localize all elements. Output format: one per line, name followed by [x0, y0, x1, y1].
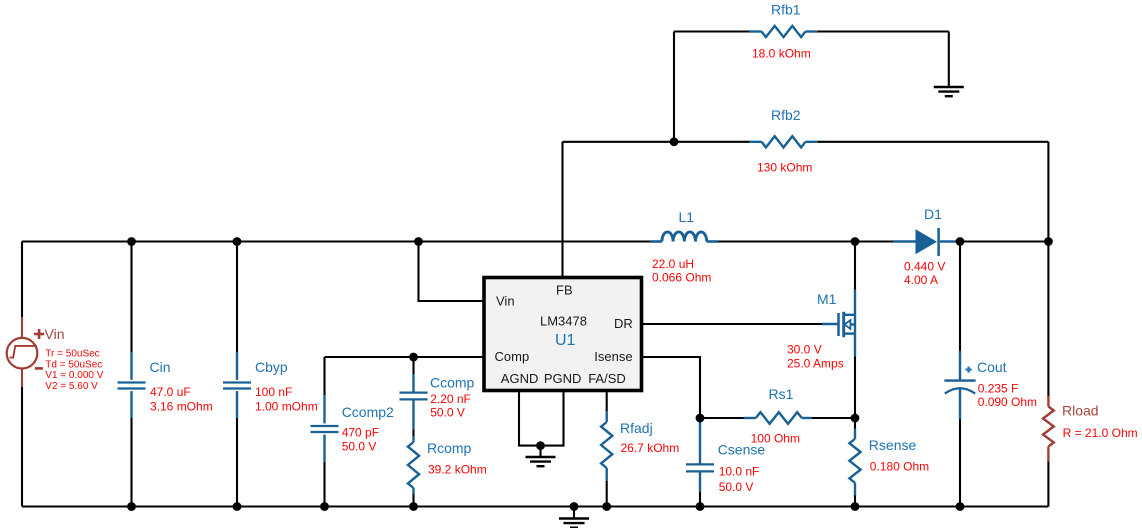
svg-text:39.2 kOhm: 39.2 kOhm	[428, 463, 487, 477]
svg-text:Rfadj: Rfadj	[620, 420, 653, 436]
svg-text:Rcomp: Rcomp	[427, 440, 472, 456]
svg-text:30.0 V: 30.0 V	[787, 343, 822, 357]
svg-text:FB: FB	[556, 283, 573, 298]
svg-text:Vin: Vin	[45, 326, 65, 342]
svg-text:10.0 nF: 10.0 nF	[719, 465, 760, 479]
svg-text:Rload: Rload	[1062, 403, 1099, 419]
svg-text:50.0 V: 50.0 V	[719, 480, 754, 494]
svg-text:R = 21.0 Ohm: R = 21.0 Ohm	[1063, 426, 1138, 440]
svg-text:4.00 A: 4.00 A	[904, 273, 938, 287]
svg-text:Td = 50uSec: Td = 50uSec	[45, 359, 102, 370]
svg-text:0.440 V: 0.440 V	[904, 260, 945, 274]
svg-text:FA/SD: FA/SD	[588, 371, 626, 386]
svg-text:PGND: PGND	[544, 371, 582, 386]
svg-text:Vin: Vin	[496, 294, 515, 309]
svg-text:25.0 Amps: 25.0 Amps	[787, 357, 844, 371]
svg-text:Rfb1: Rfb1	[771, 2, 801, 18]
svg-text:Cout: Cout	[977, 359, 1007, 375]
svg-text:U1: U1	[555, 332, 576, 349]
svg-text:Rfb2: Rfb2	[771, 107, 801, 123]
svg-text:3.16 mOhm: 3.16 mOhm	[150, 400, 213, 414]
svg-text:V2 = 5.60 V: V2 = 5.60 V	[45, 381, 98, 392]
svg-text:18.0 kOhm: 18.0 kOhm	[752, 47, 811, 61]
svg-text:0.066 Ohm: 0.066 Ohm	[652, 271, 711, 285]
svg-text:M1: M1	[817, 291, 837, 307]
svg-text:100 Ohm: 100 Ohm	[751, 432, 800, 446]
svg-text:L1: L1	[679, 209, 695, 225]
svg-text:Cin: Cin	[150, 359, 171, 375]
svg-text:Ccomp: Ccomp	[430, 375, 475, 391]
svg-text:47.0 uF: 47.0 uF	[150, 385, 191, 399]
svg-text:2.20 nF: 2.20 nF	[430, 392, 471, 406]
svg-text:Comp: Comp	[495, 349, 530, 364]
svg-text:Rsense: Rsense	[869, 437, 917, 453]
svg-text:0.090 Ohm: 0.090 Ohm	[978, 395, 1037, 409]
svg-text:AGND: AGND	[501, 371, 539, 386]
svg-text:Isense: Isense	[594, 349, 632, 364]
svg-text:26.7 kOhm: 26.7 kOhm	[621, 441, 680, 455]
svg-text:D1: D1	[924, 206, 942, 222]
svg-text:Tr = 50uSec: Tr = 50uSec	[45, 349, 99, 360]
svg-text:50.0 V: 50.0 V	[430, 406, 465, 420]
svg-text:130 kOhm: 130 kOhm	[757, 161, 812, 175]
svg-text:0.235 F: 0.235 F	[978, 382, 1019, 396]
svg-text:22.0 uH: 22.0 uH	[652, 257, 694, 271]
svg-text:Rs1: Rs1	[769, 386, 794, 402]
svg-text:Cbyp: Cbyp	[255, 359, 288, 375]
svg-text:0.180 Ohm: 0.180 Ohm	[870, 460, 929, 474]
svg-text:LM3478: LM3478	[540, 314, 587, 329]
svg-text:50.0 V: 50.0 V	[342, 440, 377, 454]
svg-text:1.00 mOhm: 1.00 mOhm	[255, 400, 318, 414]
svg-text:100 nF: 100 nF	[255, 385, 292, 399]
svg-text:470 pF: 470 pF	[342, 426, 379, 440]
svg-text:DR: DR	[614, 316, 633, 331]
svg-text:Ccomp2: Ccomp2	[342, 404, 394, 420]
svg-text:V1 = 0.000 V: V1 = 0.000 V	[45, 370, 103, 381]
